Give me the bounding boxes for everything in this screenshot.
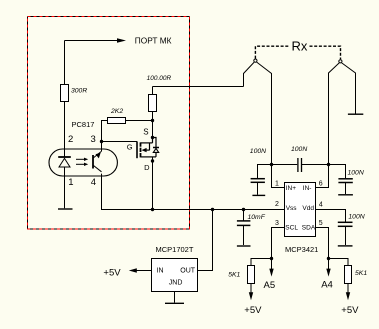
svg-text:+5V: +5V — [103, 268, 121, 279]
svg-text:6: 6 — [319, 181, 323, 188]
svg-text:+5V: +5V — [341, 305, 359, 316]
svg-text:IN: IN — [157, 267, 164, 274]
svg-text:1: 1 — [275, 181, 279, 188]
svg-text:1: 1 — [68, 177, 73, 188]
svg-text:100.00R: 100.00R — [147, 75, 172, 82]
svg-text:Vdd: Vdd — [302, 205, 314, 212]
svg-text:ПОРТ МК: ПОРТ МК — [135, 36, 172, 46]
svg-text:100N: 100N — [291, 146, 307, 153]
svg-text:IN+: IN+ — [286, 185, 297, 192]
svg-text:300R: 300R — [71, 88, 87, 95]
svg-text:5K1: 5K1 — [355, 270, 367, 277]
svg-text:4: 4 — [319, 202, 323, 209]
svg-text:5: 5 — [319, 220, 323, 227]
svg-text:SCL: SCL — [285, 224, 298, 231]
svg-text:G: G — [127, 143, 133, 152]
svg-text:100N: 100N — [348, 213, 364, 220]
svg-text:100N: 100N — [348, 170, 364, 177]
svg-text:D: D — [144, 163, 150, 172]
svg-text:2: 2 — [68, 134, 73, 145]
svg-text:JND: JND — [169, 280, 183, 287]
svg-text:2K2: 2K2 — [110, 108, 123, 115]
svg-text:10mF: 10mF — [248, 214, 266, 221]
svg-text:MCP3421: MCP3421 — [285, 245, 318, 254]
svg-text:MCP1702T: MCP1702T — [156, 245, 194, 254]
svg-text:3: 3 — [275, 220, 279, 227]
svg-text:+5V: +5V — [244, 305, 262, 316]
svg-text:3: 3 — [91, 134, 96, 145]
svg-text:IN-: IN- — [303, 185, 312, 192]
svg-text:Vss: Vss — [286, 205, 298, 212]
svg-text:2: 2 — [275, 201, 279, 208]
svg-text:4: 4 — [91, 177, 96, 188]
svg-text:PC817: PC817 — [72, 120, 95, 129]
svg-text:100N: 100N — [250, 148, 266, 155]
svg-text:OUT: OUT — [180, 267, 196, 274]
svg-text:5K1: 5K1 — [228, 271, 240, 278]
svg-text:SDA: SDA — [302, 224, 316, 231]
svg-text:S: S — [143, 127, 148, 136]
svg-text:A4: A4 — [321, 280, 333, 291]
svg-text:Rx: Rx — [292, 39, 308, 54]
svg-text:A5: A5 — [264, 280, 276, 291]
